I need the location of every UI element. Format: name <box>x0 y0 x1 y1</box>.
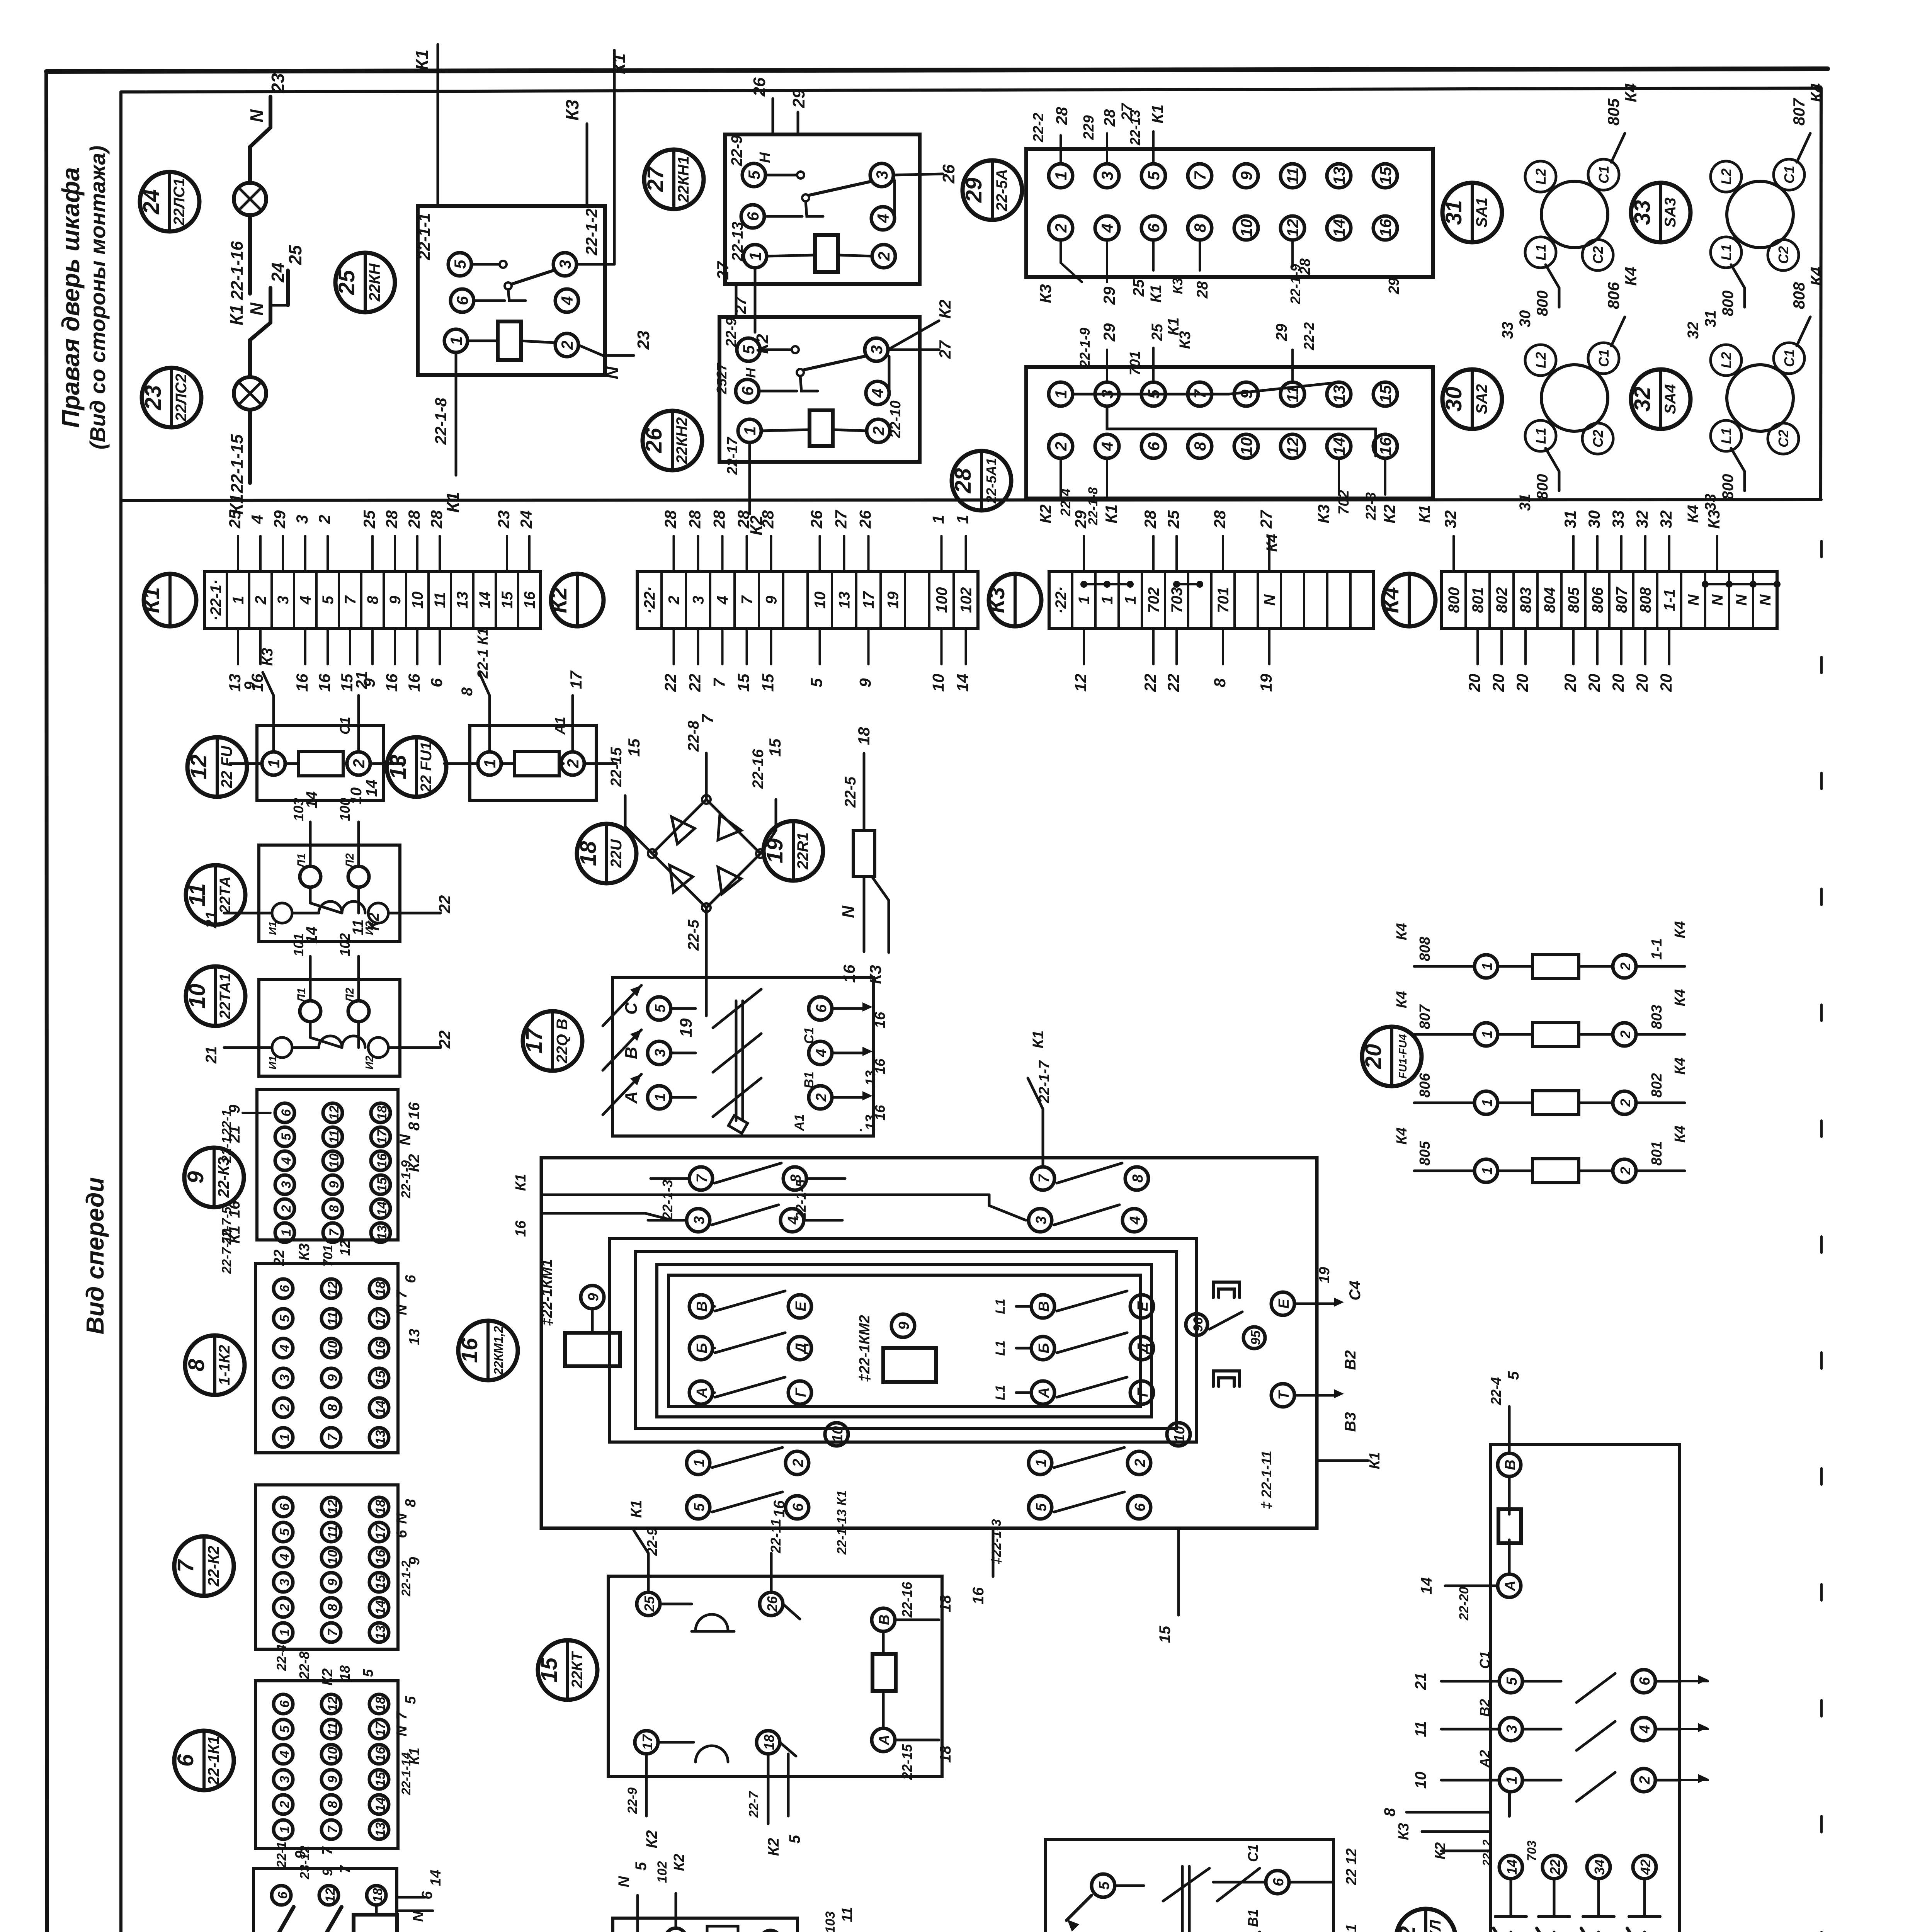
svg-text:26: 26 <box>750 77 769 97</box>
svg-text:12: 12 <box>325 1281 340 1296</box>
svg-text:2: 2 <box>1617 1099 1633 1107</box>
svg-text:22-1-2: 22-1-2 <box>399 1561 413 1597</box>
svg-text:15: 15 <box>1376 385 1395 403</box>
svg-text:1: 1 <box>277 1826 292 1833</box>
svg-text:11: 11 <box>1284 167 1302 184</box>
svg-text:14: 14 <box>373 1797 388 1812</box>
svg-text:‡22-1-3: ‡22-1-3 <box>989 1519 1004 1564</box>
svg-text:4: 4 <box>277 1344 292 1352</box>
svg-text:22-5: 22-5 <box>685 919 702 951</box>
svg-text:‡ 22-1-11: ‡ 22-1-11 <box>1259 1451 1274 1509</box>
svg-text:10: 10 <box>325 1747 340 1762</box>
svg-text:5: 5 <box>1145 171 1163 180</box>
svg-text:25: 25 <box>1164 510 1182 529</box>
svg-text:805: 805 <box>1565 587 1582 613</box>
svg-text:7: 7 <box>342 595 359 604</box>
svg-text:16: 16 <box>405 673 423 692</box>
svg-text:13: 13 <box>862 1070 878 1086</box>
svg-text:30: 30 <box>1517 310 1534 328</box>
svg-text:К2: К2 <box>671 1854 687 1871</box>
svg-text:8: 8 <box>325 1404 340 1411</box>
svg-text:14: 14 <box>476 592 493 609</box>
svg-text:22-1-15: 22-1-15 <box>228 434 247 493</box>
svg-text:229: 229 <box>1081 115 1097 140</box>
svg-text:28: 28 <box>710 510 728 529</box>
svg-text:2: 2 <box>1052 442 1070 451</box>
svg-text:5: 5 <box>277 1528 292 1536</box>
svg-text:28: 28 <box>1297 258 1313 275</box>
svg-text:22-1-13 К1: 22-1-13 К1 <box>835 1490 849 1555</box>
svg-text:К4: К4 <box>1394 923 1410 940</box>
svg-text:6: 6 <box>1270 1878 1287 1886</box>
svg-text:1: 1 <box>277 1434 292 1441</box>
svg-text:9: 9 <box>241 681 259 690</box>
svg-text:2: 2 <box>350 759 368 768</box>
svg-text:1: 1 <box>691 1459 707 1467</box>
svg-text:2: 2 <box>277 1801 292 1808</box>
svg-text:1: 1 <box>741 426 759 435</box>
svg-text:1: 1 <box>230 596 247 604</box>
svg-text:5: 5 <box>633 1862 650 1871</box>
svg-text:14: 14 <box>375 1201 389 1216</box>
svg-text:23: 23 <box>141 385 166 411</box>
svg-text:К4: К4 <box>1807 267 1825 286</box>
svg-text:А: А <box>876 1735 893 1745</box>
svg-text:22-1-16: 22-1-16 <box>228 241 247 300</box>
svg-text:Н: Н <box>743 367 759 378</box>
svg-text:22-16: 22-16 <box>899 1582 915 1618</box>
svg-text:1: 1 <box>1052 389 1070 398</box>
svg-text:Г: Г <box>1135 1388 1151 1397</box>
svg-text:800: 800 <box>1719 474 1736 500</box>
svg-text:14: 14 <box>373 1400 388 1415</box>
svg-text:5: 5 <box>691 1503 707 1512</box>
svg-text:11: 11 <box>325 1525 340 1539</box>
svg-text:22-2: 22-2 <box>1301 322 1317 350</box>
svg-text:3: 3 <box>873 170 891 179</box>
svg-text:16: 16 <box>375 1153 389 1168</box>
svg-text:15: 15 <box>373 1575 388 1590</box>
svg-text:5: 5 <box>786 1835 803 1844</box>
svg-text:27: 27 <box>714 362 730 379</box>
svg-text:3: 3 <box>1504 1725 1520 1733</box>
svg-text:3: 3 <box>275 596 292 604</box>
svg-text:1: 1 <box>1076 596 1093 604</box>
svg-text:C2: C2 <box>1776 430 1791 447</box>
svg-text:2: 2 <box>1617 1031 1633 1039</box>
svg-text:16: 16 <box>1376 437 1395 455</box>
svg-text:22: 22 <box>435 1031 454 1049</box>
svg-text:7: 7 <box>710 678 728 687</box>
svg-text:22-1-7: 22-1-7 <box>1036 1060 1053 1104</box>
svg-text:14: 14 <box>1330 219 1348 237</box>
svg-text:701: 701 <box>321 1245 335 1267</box>
svg-text:7: 7 <box>394 1290 410 1299</box>
svg-text:18: 18 <box>375 1105 389 1120</box>
svg-text:6: 6 <box>403 1275 419 1283</box>
svg-text:15: 15 <box>1376 167 1395 185</box>
svg-text:12: 12 <box>186 755 211 780</box>
svg-text:22-1-3: 22-1-3 <box>660 1180 675 1220</box>
svg-text:806: 806 <box>1589 587 1606 613</box>
svg-text:8: 8 <box>325 1801 340 1808</box>
svg-text:L1: L1 <box>993 1340 1008 1356</box>
svg-text:3: 3 <box>690 596 707 604</box>
svg-text:22R1: 22R1 <box>794 832 811 870</box>
svg-text:А1: А1 <box>552 717 568 735</box>
svg-text:SА2: SА2 <box>1473 384 1490 414</box>
svg-text:16: 16 <box>513 1220 529 1237</box>
svg-text:25: 25 <box>641 1596 657 1612</box>
svg-text:В1: В1 <box>802 1071 816 1088</box>
svg-text:4: 4 <box>874 214 892 223</box>
svg-text:22-4: 22-4 <box>274 1645 289 1671</box>
svg-text:11: 11 <box>325 1722 340 1736</box>
svg-text:17: 17 <box>373 1524 388 1539</box>
svg-text:20: 20 <box>1633 674 1651 692</box>
svg-text:L2: L2 <box>1718 168 1734 185</box>
svg-text:К3: К3 <box>562 100 582 121</box>
svg-text:22ЛС2: 22ЛС2 <box>173 374 190 422</box>
svg-text:10: 10 <box>327 1153 342 1168</box>
svg-text:13: 13 <box>1330 385 1348 403</box>
svg-text:N: N <box>1261 594 1278 605</box>
svg-text:95: 95 <box>1248 1330 1263 1345</box>
svg-text:28: 28 <box>405 510 423 529</box>
svg-text:5: 5 <box>451 260 469 269</box>
svg-text:8: 8 <box>1191 223 1209 233</box>
svg-text:22КМ1,2: 22КМ1,2 <box>492 1326 505 1376</box>
svg-text:N: N <box>1733 594 1750 605</box>
svg-text:6: 6 <box>1637 1677 1653 1685</box>
svg-text:19: 19 <box>1316 1267 1333 1283</box>
svg-text:N: N <box>397 1134 414 1145</box>
svg-text:21: 21 <box>203 911 220 929</box>
svg-text:8: 8 <box>403 1499 419 1507</box>
svg-text:С1: С1 <box>802 1027 816 1044</box>
svg-text:17: 17 <box>375 1129 389 1144</box>
svg-text:32: 32 <box>1630 387 1655 412</box>
svg-text:14: 14 <box>1418 1577 1435 1595</box>
svg-text:C1: C1 <box>1781 166 1797 184</box>
svg-text:22-8: 22-8 <box>685 720 702 752</box>
svg-text:2: 2 <box>1132 1459 1148 1467</box>
svg-text:22: 22 <box>1547 1859 1563 1875</box>
svg-text:28: 28 <box>1194 281 1211 299</box>
svg-text:20: 20 <box>1489 674 1507 692</box>
svg-text:1: 1 <box>1479 1167 1495 1175</box>
svg-text:29: 29 <box>1100 323 1118 342</box>
svg-text:2: 2 <box>279 1205 294 1213</box>
svg-text:802: 802 <box>1493 587 1510 613</box>
svg-text:N: N <box>616 1876 633 1887</box>
svg-text:24: 24 <box>139 189 164 215</box>
svg-text:8: 8 <box>459 687 476 696</box>
svg-text:20: 20 <box>1561 674 1579 692</box>
svg-text:7: 7 <box>1191 171 1209 180</box>
svg-text:22-10: 22-10 <box>888 400 904 438</box>
svg-text:7: 7 <box>1036 1174 1052 1183</box>
svg-text:22ТА1: 22ТА1 <box>217 973 234 1020</box>
svg-text:27: 27 <box>936 340 954 359</box>
svg-text:К1: К1 <box>1148 285 1165 303</box>
svg-text:5: 5 <box>279 1133 294 1140</box>
svg-text:1: 1 <box>265 759 283 768</box>
svg-text:22КЛ: 22КЛ <box>1427 1919 1444 1932</box>
svg-text:29: 29 <box>270 510 289 529</box>
svg-text:К1: К1 <box>139 587 164 613</box>
svg-text:22: 22 <box>1395 1926 1420 1932</box>
svg-text:805: 805 <box>1604 98 1622 126</box>
svg-text:2: 2 <box>875 252 893 261</box>
svg-text:2: 2 <box>813 1093 830 1102</box>
svg-text:К2: К2 <box>643 1830 660 1849</box>
svg-text:23: 23 <box>495 510 513 529</box>
svg-text:А: А <box>1036 1387 1052 1398</box>
svg-text:5: 5 <box>1096 1881 1112 1890</box>
svg-text:Т: Т <box>1276 1390 1292 1400</box>
svg-text:22-1: 22-1 <box>274 1842 289 1868</box>
svg-text:К4: К4 <box>1622 267 1640 286</box>
svg-text:30: 30 <box>1441 387 1466 412</box>
svg-text:6: 6 <box>173 1754 198 1767</box>
svg-text:807: 807 <box>1417 1004 1433 1029</box>
svg-text:18: 18 <box>337 1665 353 1681</box>
svg-text:29: 29 <box>1100 286 1118 305</box>
svg-text:2: 2 <box>666 596 683 605</box>
svg-text:28: 28 <box>1211 510 1229 529</box>
svg-text:22-13: 22-13 <box>729 222 746 262</box>
svg-text:9: 9 <box>183 1171 208 1184</box>
svg-text:103: 103 <box>823 1912 838 1932</box>
svg-text:·22·: ·22· <box>641 586 658 614</box>
svg-text:6: 6 <box>277 1284 292 1292</box>
svg-text:А: А <box>694 1387 710 1398</box>
svg-text:12: 12 <box>1071 674 1090 692</box>
svg-text:N: N <box>602 366 622 379</box>
svg-text:К2: К2 <box>546 587 571 613</box>
svg-text:14: 14 <box>363 780 380 797</box>
svg-text:L1: L1 <box>993 1299 1008 1314</box>
svg-text:И1: И1 <box>267 921 279 935</box>
svg-text:SА1: SА1 <box>1473 197 1490 228</box>
svg-text:9: 9 <box>896 1321 912 1330</box>
svg-text:22-9: 22-9 <box>625 1787 640 1814</box>
svg-text:7: 7 <box>173 1559 198 1572</box>
svg-text:22-4: 22-4 <box>1488 1377 1504 1405</box>
svg-text:В2: В2 <box>1342 1350 1359 1370</box>
svg-text:16: 16 <box>293 673 311 692</box>
svg-text:1: 1 <box>1122 596 1139 604</box>
svg-text:25: 25 <box>226 510 244 529</box>
svg-text:25: 25 <box>360 510 378 529</box>
svg-text:16: 16 <box>315 673 333 692</box>
svg-text:19: 19 <box>1257 673 1275 692</box>
svg-text:29: 29 <box>1071 510 1090 529</box>
svg-text:В1: В1 <box>1245 1909 1261 1927</box>
svg-text:К3: К3 <box>866 965 884 984</box>
svg-text:К1: К1 <box>1367 1452 1383 1469</box>
svg-text:5: 5 <box>1504 1677 1520 1685</box>
svg-text:22-1-2: 22-1-2 <box>582 208 600 255</box>
svg-text:10: 10 <box>348 787 365 805</box>
svg-text:C1: C1 <box>1781 349 1797 367</box>
svg-text:7: 7 <box>327 1228 342 1236</box>
svg-text:703: 703 <box>1525 1840 1539 1861</box>
svg-text:N: N <box>394 1725 410 1736</box>
svg-text:14: 14 <box>428 1870 444 1886</box>
svg-text:14: 14 <box>1330 437 1348 456</box>
svg-text:22: 22 <box>686 674 704 692</box>
svg-text:N: N <box>247 109 267 122</box>
svg-text:15: 15 <box>766 738 784 757</box>
svg-text:22: 22 <box>1141 674 1159 692</box>
svg-text:1: 1 <box>447 336 465 345</box>
svg-text:13: 13 <box>386 755 411 780</box>
svg-text:К4: К4 <box>1672 1126 1688 1143</box>
svg-text:‡22-1КМ1: ‡22-1КМ1 <box>539 1259 555 1326</box>
svg-text:2: 2 <box>277 1404 292 1412</box>
svg-text:8: 8 <box>1130 1174 1146 1183</box>
svg-text:С1: С1 <box>337 717 353 735</box>
svg-text:808: 808 <box>1637 587 1654 613</box>
svg-text:8: 8 <box>325 1604 340 1611</box>
svg-text:3: 3 <box>652 1049 668 1057</box>
svg-text:3: 3 <box>279 1181 294 1188</box>
svg-text:14: 14 <box>1504 1859 1520 1875</box>
svg-text:32: 32 <box>1685 322 1702 339</box>
svg-text:17: 17 <box>373 1721 388 1736</box>
svg-text:11: 11 <box>839 1907 855 1922</box>
svg-text:26: 26 <box>856 510 874 529</box>
svg-text:2: 2 <box>277 1604 292 1611</box>
svg-text:L2: L2 <box>1533 168 1549 185</box>
svg-text:1: 1 <box>1052 171 1070 180</box>
svg-text:12: 12 <box>327 1105 342 1120</box>
svg-text:N: N <box>394 1513 410 1524</box>
svg-text:102: 102 <box>337 933 353 956</box>
svg-text:701: 701 <box>1127 351 1143 375</box>
svg-text:4: 4 <box>869 388 887 398</box>
svg-text:5: 5 <box>1505 1371 1522 1380</box>
svg-text:25: 25 <box>1149 323 1166 341</box>
svg-text:16: 16 <box>373 1340 388 1355</box>
svg-text:17: 17 <box>639 1734 655 1750</box>
svg-text:К2: К2 <box>936 299 954 318</box>
svg-text:1: 1 <box>277 1629 292 1636</box>
svg-text:9: 9 <box>325 1776 340 1783</box>
svg-text:15: 15 <box>759 673 777 692</box>
svg-text:И1: И1 <box>267 1056 279 1070</box>
svg-text:12: 12 <box>1284 219 1302 237</box>
svg-text:15: 15 <box>625 738 643 757</box>
svg-text:800: 800 <box>1534 291 1551 316</box>
svg-text:13: 13 <box>226 674 244 692</box>
svg-text:13: 13 <box>1330 167 1348 185</box>
svg-text:11: 11 <box>327 1130 342 1143</box>
svg-text:7: 7 <box>325 1628 340 1636</box>
svg-text:18: 18 <box>373 1697 388 1711</box>
svg-text:SА4: SА4 <box>1662 384 1679 414</box>
svg-text:L1: L1 <box>1718 244 1734 260</box>
svg-text:801: 801 <box>1469 587 1486 613</box>
svg-text:N: N <box>839 905 858 918</box>
svg-text:9: 9 <box>325 1578 340 1586</box>
svg-text:К3: К3 <box>1705 510 1723 529</box>
svg-text:6: 6 <box>394 1530 410 1538</box>
svg-text:К4: К4 <box>1264 534 1281 552</box>
svg-text:18: 18 <box>373 1281 388 1296</box>
svg-text:10: 10 <box>1412 1772 1429 1789</box>
svg-text:8: 8 <box>364 595 381 604</box>
svg-text:22-9: 22-9 <box>728 135 745 167</box>
svg-text:22-16: 22-16 <box>750 749 767 789</box>
svg-text:9: 9 <box>763 595 780 604</box>
svg-text:В: В <box>1036 1301 1052 1311</box>
svg-text:К2: К2 <box>765 1838 782 1856</box>
svg-text:N: N <box>1685 594 1702 605</box>
svg-text:19: 19 <box>677 1018 696 1037</box>
svg-text:8: 8 <box>1191 442 1209 451</box>
svg-text:16: 16 <box>1376 219 1395 237</box>
svg-text:22-11: 22-11 <box>768 1519 784 1553</box>
svg-text:14: 14 <box>954 674 972 692</box>
svg-text:18: 18 <box>371 1888 385 1903</box>
svg-text:Н: Н <box>757 152 773 163</box>
svg-text:L2: L2 <box>1718 352 1734 368</box>
svg-text:22-9: 22-9 <box>644 1528 660 1556</box>
svg-text:К3: К3 <box>1170 278 1185 294</box>
svg-text:6: 6 <box>1145 223 1163 233</box>
svg-text:C1: C1 <box>1596 349 1612 367</box>
svg-text:6: 6 <box>276 1891 290 1899</box>
svg-text:12: 12 <box>325 1697 340 1711</box>
svg-text:28: 28 <box>759 510 777 529</box>
svg-text:14: 14 <box>303 791 320 809</box>
svg-text:22-1К1: 22-1К1 <box>205 1736 222 1786</box>
svg-text:12: 12 <box>1284 437 1302 456</box>
svg-text:5: 5 <box>808 678 826 687</box>
svg-text:9: 9 <box>327 1181 342 1188</box>
svg-text:Г: Г <box>793 1388 809 1397</box>
svg-text:К1: К1 <box>1102 504 1120 523</box>
svg-text:1: 1 <box>1504 1776 1520 1784</box>
svg-text:24: 24 <box>517 510 535 529</box>
svg-text:·22·: ·22· <box>1053 586 1070 614</box>
svg-text:4: 4 <box>813 1049 830 1057</box>
svg-text:К1: К1 <box>226 304 247 325</box>
svg-text:12: 12 <box>323 1888 338 1903</box>
svg-text:5: 5 <box>1033 1503 1049 1512</box>
svg-text:22-17: 22-17 <box>724 437 741 475</box>
svg-text:26: 26 <box>641 428 667 453</box>
svg-text:1: 1 <box>929 515 947 524</box>
svg-text:806: 806 <box>1604 282 1622 309</box>
svg-text:14: 14 <box>303 927 320 944</box>
svg-text:16: 16 <box>521 591 538 609</box>
svg-text:16: 16 <box>970 1587 987 1604</box>
svg-text:1: 1 <box>1099 596 1116 604</box>
svg-text:33: 33 <box>1630 200 1655 225</box>
svg-text:802: 802 <box>1649 1073 1665 1097</box>
svg-text:1: 1 <box>1479 1099 1495 1107</box>
svg-text:(Вид со стороны монтажа): (Вид со стороны монтажа) <box>85 146 110 450</box>
svg-text:1: 1 <box>746 252 764 260</box>
svg-text:К3: К3 <box>1036 284 1054 303</box>
svg-text:4: 4 <box>1098 442 1116 451</box>
svg-text:22-2: 22-2 <box>1031 113 1047 143</box>
svg-text:32: 32 <box>1441 510 1459 529</box>
